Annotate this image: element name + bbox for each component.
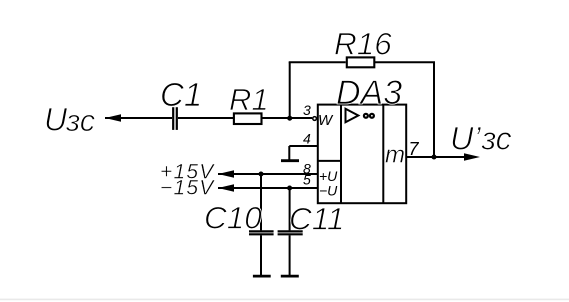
wire feedback right vertical [433, 62, 435, 157]
label U'zs [450, 121, 512, 157]
wire C10 lower [260, 235, 262, 276]
node junction C11 [287, 186, 292, 191]
wire C11 lower [289, 235, 291, 276]
svg-text:W: W [318, 112, 334, 129]
wire output [406, 156, 465, 158]
svg-text:зс: зс [65, 103, 96, 138]
ground pin4 [281, 159, 299, 162]
supply -15V arrow [218, 184, 234, 192]
svg-text:DA3: DA3 [336, 74, 402, 112]
svg-text:C10: C10 [204, 200, 262, 236]
svg-text:U’: U’ [450, 121, 481, 157]
svg-text:−U: −U [319, 183, 338, 199]
svg-text:−15V: −15V [160, 177, 215, 200]
svg-text:5: 5 [303, 171, 311, 187]
svg-text:m: m [385, 141, 405, 168]
node junction output/feedback [432, 155, 437, 160]
svg-text:R16: R16 [334, 26, 392, 62]
wire C1 to R1 [178, 117, 233, 119]
ground C11 [281, 275, 299, 278]
wire feedback left vertical [289, 62, 291, 118]
svg-text:C1: C1 [160, 76, 202, 113]
svg-text:U: U [44, 102, 68, 138]
svg-text:R1: R1 [229, 82, 269, 117]
resistor R1 [234, 113, 262, 124]
op-amp infinity symbol [364, 114, 374, 118]
capacitor C10 [249, 231, 274, 234]
wire C10 upper [260, 174, 262, 230]
op-amp U1 DA3 box [318, 105, 406, 204]
wire feedback top right [375, 61, 435, 63]
wire R1 to pin3 bubble [262, 117, 312, 119]
supply +15V arrow [218, 170, 234, 178]
resistor R16 [347, 57, 375, 67]
capacitor C1 [173, 107, 177, 130]
wire input arrow to C1 [105, 117, 172, 119]
node junction C10 [259, 172, 264, 177]
pin 3 bubble [313, 117, 317, 121]
node Uzs input arrow [105, 114, 121, 122]
pin 4 wire [289, 146, 318, 160]
label Uzs [44, 102, 96, 139]
node junction input/feedback [287, 116, 292, 121]
bottom window border line [0, 299, 569, 301]
node output arrow [464, 153, 480, 161]
svg-text:3: 3 [303, 102, 311, 118]
wire feedback top left [289, 61, 346, 63]
op-amp triangle [346, 109, 359, 122]
svg-text:C11: C11 [289, 201, 344, 237]
wire C11 upper [289, 188, 291, 230]
wire +15V to pin 8 [218, 173, 318, 175]
ground C10 [253, 275, 271, 278]
capacitor C11 [278, 231, 303, 234]
svg-text:зс: зс [481, 121, 512, 157]
wire -15V to pin 5 [218, 187, 318, 189]
svg-text:4: 4 [303, 131, 311, 147]
